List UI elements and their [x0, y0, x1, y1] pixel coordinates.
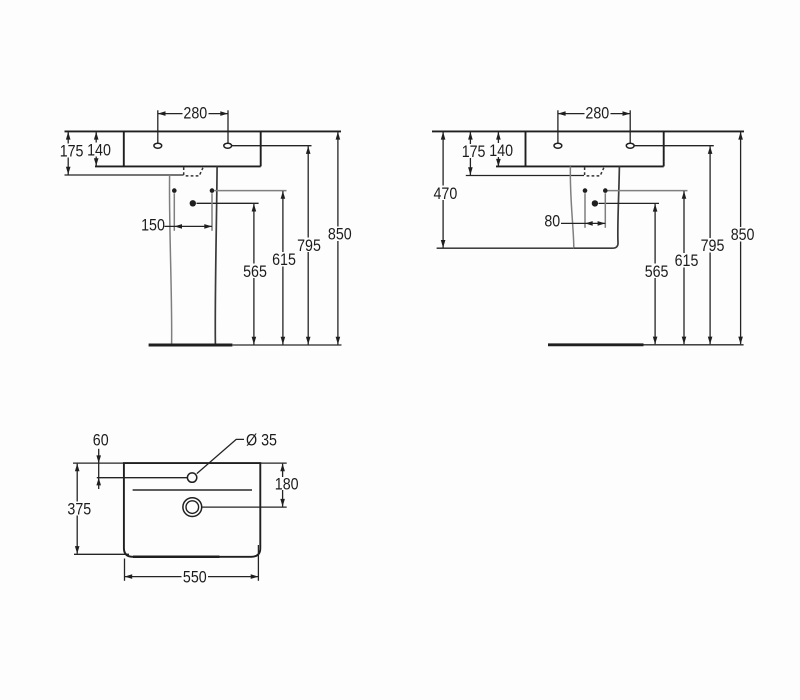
extension line 375 bottom (plan): [74, 553, 129, 555]
dimension 140 right view: [489, 132, 513, 167]
wall/top line right view: [432, 130, 744, 132]
siphon dashed outline (right view): [585, 167, 604, 176]
svg-text:280: 280: [183, 105, 207, 123]
semi-pedestal right edge and bottom (right view): [574, 166, 620, 248]
waste dot (left view): [190, 200, 196, 206]
dimension 795 right view: [701, 146, 725, 344]
svg-text:180: 180: [275, 475, 299, 493]
extension line 565 left view: [197, 202, 259, 204]
floor line left view: [149, 344, 342, 347]
extension line 470 bottom right view: [437, 247, 574, 249]
tap hole right (right view): [626, 143, 634, 148]
svg-text:175: 175: [462, 143, 486, 161]
svg-text:175: 175: [60, 143, 84, 161]
svg-text:550: 550: [183, 568, 207, 586]
dimension 795 left view: [297, 146, 321, 344]
label diameter 35 (plan): [246, 432, 277, 450]
fixing hole left dot (left view): [172, 188, 177, 193]
tap hole left (left view): [154, 143, 162, 148]
pedestal right edge (left view): [215, 166, 217, 344]
pedestal left edge (left view): [169, 175, 171, 345]
svg-text:565: 565: [243, 263, 267, 281]
wall/top line left view: [65, 130, 342, 132]
tap hole circle (plan): [187, 473, 196, 482]
svg-text:850: 850: [731, 226, 755, 244]
svg-text:565: 565: [645, 263, 669, 281]
dimension 565 right view: [645, 204, 669, 344]
svg-text:280: 280: [585, 105, 609, 123]
dimension 175 right view: [462, 132, 486, 175]
floor line right view: [548, 343, 744, 346]
dimension 150 left view: [141, 193, 212, 234]
dimension 470 right view: [433, 132, 458, 248]
dimension 80 right view: [544, 193, 605, 230]
basin body right view: [496, 131, 664, 166]
extension line 615 left view: [215, 190, 287, 192]
extension line 615 right view: [608, 190, 688, 192]
svg-text:850: 850: [328, 225, 352, 243]
leader line diameter 35 (plan): [197, 439, 244, 473]
tap hole left (right view): [554, 143, 562, 148]
dimension 550 (plan): [125, 545, 259, 586]
svg-text:795: 795: [701, 237, 725, 255]
svg-text:615: 615: [272, 251, 296, 269]
semi-pedestal left edge (right view): [570, 166, 573, 248]
svg-text:150: 150: [141, 216, 165, 234]
dimension 615 right view: [675, 191, 699, 344]
dimension 280 right view: [558, 105, 630, 143]
overflow back line (plan): [133, 489, 252, 491]
dimension 375 (plan): [67, 464, 92, 554]
svg-text:80: 80: [544, 213, 560, 231]
dimension 175 left view: [60, 132, 84, 175]
dimension 280 left view: [158, 105, 228, 144]
dimension 850 right view: [731, 132, 756, 344]
svg-text:60: 60: [93, 431, 109, 449]
extension line 565 right view: [599, 202, 660, 204]
svg-text:140: 140: [87, 142, 111, 160]
dimension 850 left view: [328, 132, 353, 345]
svg-text:140: 140: [489, 142, 513, 160]
dimension 615 left view: [272, 191, 296, 344]
extension line waste centre (plan): [202, 506, 287, 508]
svg-text:Ø 35: Ø 35: [246, 432, 277, 450]
waste dot (right view): [592, 200, 598, 206]
tap hole right (left view): [224, 143, 232, 148]
svg-text:470: 470: [434, 185, 458, 203]
fixing hole right dot (right view): [603, 188, 608, 193]
svg-text:375: 375: [67, 500, 91, 518]
extension line 795 right view: [635, 145, 714, 147]
svg-text:615: 615: [675, 252, 699, 270]
fixing hole right dot (left view): [210, 188, 215, 193]
extension line 175 bottom left view: [65, 174, 184, 176]
svg-text:795: 795: [297, 237, 321, 255]
siphon dashed outline (left view): [184, 167, 203, 176]
extension line 175 bottom right view: [466, 175, 584, 177]
fixing hole left dot (right view): [583, 188, 588, 193]
extension line 795 left view: [232, 145, 312, 147]
dimension 565 left view: [243, 204, 267, 345]
dimension 140 left view: [87, 132, 111, 166]
waste hole circles (plan): [183, 498, 202, 517]
basin body left view: [95, 131, 261, 166]
tap hole centre line (plan): [97, 477, 188, 479]
basin front edge thick segment (plan): [133, 556, 220, 559]
extension line top (plan): [73, 462, 287, 464]
dimension 60 (plan): [93, 431, 109, 489]
dimension 180 (plan): [275, 464, 299, 507]
basin outline (plan): [124, 463, 260, 557]
